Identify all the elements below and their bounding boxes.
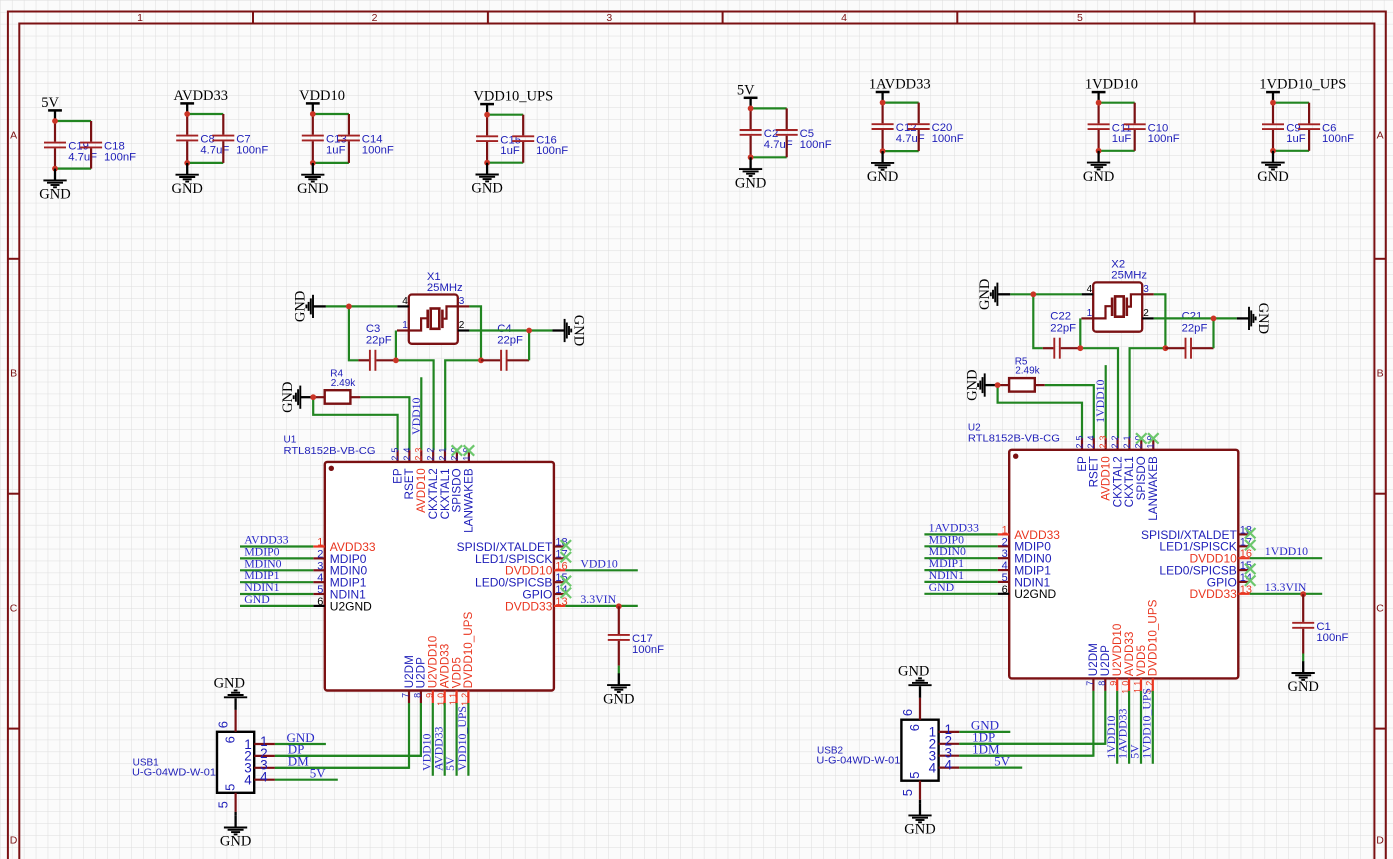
U1 pin 24 RSET: [402, 445, 416, 500]
U1 pin 3 MDIN0: [313, 560, 367, 577]
ground symbol left of X2: [977, 279, 1010, 310]
svg-text:C21: C21: [1182, 311, 1203, 323]
svg-text:25MHz: 25MHz: [427, 282, 463, 294]
column numbers: [137, 12, 1083, 24]
X1 pin 3: [458, 296, 470, 307]
resistor R5 2.49k: [998, 356, 1045, 391]
svg-text:8: 8: [412, 690, 422, 698]
USB2 pin 2: [929, 734, 960, 752]
capacitor C22 22pF: [1043, 311, 1081, 359]
ground below USB1: [220, 816, 251, 850]
svg-text:GND: GND: [1255, 303, 1271, 334]
svg-text:4: 4: [402, 296, 408, 307]
svg-text:1VDD10_UPS: 1VDD10_UPS: [1259, 77, 1346, 93]
X2 pin 1: [1081, 308, 1093, 319]
capacitor C5 100nF: [776, 108, 832, 157]
USB2 pin 3: [929, 746, 960, 764]
U2 pin 19 LANWAKEB: [1146, 432, 1160, 520]
svg-text:4: 4: [841, 12, 847, 24]
U2 pin 16 DVDD10: [1189, 548, 1252, 565]
svg-text:C4: C4: [497, 323, 511, 335]
wire+net label MDIN0: [240, 556, 313, 570]
svg-text:B: B: [1377, 368, 1384, 380]
svg-text:1VDD10_UPS: 1VDD10_UPS: [1139, 688, 1153, 759]
wire DP to U2DP: [275, 703, 421, 756]
svg-text:6: 6: [900, 709, 915, 716]
U1 pin 5 NDIN1: [313, 584, 366, 601]
ground symbol below C2: [735, 157, 766, 191]
no-connect cross pin20: [452, 445, 463, 455]
wire 1DP to U2DP: [959, 691, 1105, 744]
U1 pin 8 U2DP: [412, 657, 427, 703]
svg-text:AVDD33: AVDD33: [174, 88, 229, 104]
U1 pin 14 GPIO: [522, 584, 567, 601]
svg-text:6: 6: [216, 721, 231, 728]
svg-text:GND: GND: [280, 381, 296, 412]
USB connector USB1 U-G-04WD-W-01: [132, 732, 254, 793]
svg-text:2: 2: [372, 12, 378, 24]
wire+net label GND: [240, 592, 313, 606]
U1 pin 20 SPISDO: [449, 445, 463, 513]
wire X2 pin3 down: [1154, 294, 1166, 348]
capacitor C7 100nF: [212, 114, 268, 163]
svg-text:GND: GND: [977, 279, 993, 310]
wire+net label 1AVDD33: [1116, 691, 1130, 764]
USB1 pin 5 shield: [216, 784, 238, 816]
junction pin2 wire: [1211, 316, 1217, 322]
U1 pin 19 LANWAKEB: [461, 445, 475, 533]
svg-text:1: 1: [137, 12, 143, 24]
svg-text:24: 24: [1086, 432, 1096, 448]
wire+net label AVDD33: [240, 533, 313, 547]
wire cap to gnd: [618, 666, 620, 674]
U2 pin 7 U2DM: [1085, 643, 1100, 691]
svg-text:GND: GND: [867, 169, 898, 185]
svg-text:D: D: [10, 835, 18, 847]
capacitor C2 4.7uF: [740, 108, 793, 157]
U2 pin 20 SPISDO: [1134, 432, 1148, 500]
svg-text:3: 3: [459, 296, 465, 307]
junction dots 1VDD10: [1096, 100, 1102, 154]
wire+net label VDD10: [565, 556, 638, 570]
power port 5V: [41, 95, 62, 121]
wire+net label VDD10: [419, 703, 433, 776]
ground symbol left of X1: [293, 291, 326, 322]
capacitor C16 100nF: [512, 115, 568, 163]
wire 5V parallel loop: [55, 121, 91, 169]
U1 pin 6 U2GND: [313, 596, 372, 613]
junction dots VDD10: [310, 111, 316, 166]
wire 1VDD10_UPS parallel loop: [1273, 103, 1309, 151]
svg-text:2.49k: 2.49k: [1015, 366, 1040, 377]
junction at X1 GND: [346, 304, 352, 310]
svg-text:22: 22: [426, 445, 436, 461]
U2 pin 5 NDIN1: [998, 572, 1051, 589]
wire GND to X2 pin4: [1010, 293, 1081, 295]
U2 pin 13 DVDD33: [1189, 584, 1252, 601]
svg-text:100nF: 100nF: [632, 644, 664, 656]
svg-text:C3: C3: [366, 323, 380, 335]
svg-text:4: 4: [945, 758, 953, 773]
svg-text:GND: GND: [39, 187, 70, 203]
svg-text:GND: GND: [570, 315, 586, 346]
U1 pin 1 AVDD33: [313, 537, 376, 554]
ground symbol below C8: [171, 163, 202, 197]
svg-text:4.7uF: 4.7uF: [764, 139, 793, 151]
svg-text:100nF: 100nF: [362, 144, 394, 156]
svg-text:GND: GND: [1287, 679, 1318, 695]
wire+net label NDIN1: [924, 568, 997, 582]
svg-text:7: 7: [1085, 678, 1095, 686]
svg-text:U-G-04WD-W-01: U-G-04WD-W-01: [132, 768, 216, 779]
wire+net label 1VDD10_UPS: [1139, 688, 1153, 764]
svg-text:VDD10_UPS: VDD10_UPS: [455, 706, 469, 771]
wire GND to EP: [998, 385, 1082, 438]
svg-text:100nF: 100nF: [1148, 133, 1180, 145]
wire VDD10 parallel loop: [313, 114, 349, 163]
wire 1DM to U2DM: [959, 691, 1093, 756]
svg-text:13.3VIN: 13.3VIN: [1265, 580, 1307, 594]
ground below C17: [603, 673, 634, 707]
ground symbol below C12: [867, 151, 898, 185]
U2 pin 12 DVDD10_UPS: [1144, 599, 1159, 693]
svg-text:3: 3: [317, 560, 323, 572]
U1 pin 16 DVDD10: [505, 560, 568, 577]
svg-text:1uF: 1uF: [500, 145, 520, 157]
svg-text:1VDD10: 1VDD10: [1085, 77, 1138, 93]
svg-text:B: B: [10, 368, 17, 380]
capacitor C18 100nF: [80, 121, 136, 169]
wire+net label MDIP1: [240, 568, 313, 582]
svg-text:DVDD10_UPS: DVDD10_UPS: [1147, 599, 1160, 676]
svg-text:VDD10_UPS: VDD10_UPS: [473, 89, 553, 105]
U2 pin 24 RSET: [1086, 432, 1100, 487]
U1 pin 12 DVDD10_UPS: [460, 611, 475, 705]
resistor R4 2.49k: [313, 368, 360, 403]
wire X1 pin2 to GND: [469, 329, 552, 331]
wire cap to gnd: [1302, 654, 1304, 662]
U1 pin 7 U2DM: [401, 655, 416, 703]
wire+net label 5V: [959, 753, 1022, 768]
junction 13.3VIN: [1300, 591, 1306, 597]
svg-text:2: 2: [317, 548, 323, 560]
U2 pin 23 AVDD10: [1098, 432, 1112, 500]
USB2 pin 1: [929, 722, 960, 740]
wire+net label 5V: [1128, 691, 1142, 764]
svg-text:100nF: 100nF: [236, 144, 268, 156]
svg-text:DVDD10_UPS: DVDD10_UPS: [462, 611, 475, 688]
capacitor C9 1uF: [1262, 103, 1306, 151]
wire+net label 5V: [443, 703, 457, 776]
capacitor C10 100nF: [1124, 103, 1180, 151]
capacitor C17 100nF: [608, 606, 664, 665]
U2 pin 2 MDIP0: [998, 536, 1051, 553]
svg-text:1VDD10: 1VDD10: [1265, 544, 1308, 558]
capacitor C21 22pF: [1165, 311, 1213, 359]
svg-text:4: 4: [260, 770, 268, 785]
svg-text:2: 2: [459, 320, 465, 331]
no-connect cross pin 14: [1245, 576, 1256, 586]
U1 pin 17 LED1/SPISCK: [475, 548, 568, 565]
junction right C21: [1163, 345, 1169, 351]
svg-text:GND: GND: [904, 822, 935, 838]
svg-text:C: C: [10, 603, 18, 615]
svg-text:4.7uF: 4.7uF: [200, 144, 229, 156]
U2 pin 9 U2VDD10: [1109, 623, 1124, 691]
svg-text:1uF: 1uF: [1112, 133, 1132, 145]
svg-text:RTL8152B-VB-CG: RTL8152B-VB-CG: [968, 434, 1060, 445]
wire to CKXTAL1: [1130, 348, 1166, 438]
junction right C4: [478, 357, 484, 363]
wire X2 pin2 to GND: [1154, 317, 1237, 319]
U2 pin 1 AVDD33: [998, 524, 1061, 541]
wire+net label DP: [275, 742, 421, 757]
USB1 pin 6 shield: [216, 698, 238, 743]
wire+net label MDIP0: [924, 532, 997, 546]
wire 1VDD10 parallel loop: [1099, 103, 1135, 151]
svg-text:8: 8: [1097, 678, 1107, 686]
no-connect cross pin 18: [561, 540, 572, 550]
wire+net label GND: [924, 580, 997, 594]
power port 1AVDD33: [869, 77, 931, 103]
svg-text:21: 21: [437, 445, 447, 461]
svg-text:LANWAKEB: LANWAKEB: [1147, 456, 1160, 521]
svg-text:25: 25: [1074, 432, 1084, 448]
USB2 pin 6 shield: [900, 686, 922, 731]
svg-text:4.7uF: 4.7uF: [896, 133, 925, 145]
svg-text:1: 1: [1087, 308, 1093, 319]
svg-text:D: D: [1376, 835, 1384, 847]
svg-text:4.7uF: 4.7uF: [68, 151, 97, 163]
USB2 pin 4: [929, 758, 960, 776]
svg-text:VDD10: VDD10: [580, 556, 617, 570]
U1 pin 22 CKXTAL2: [426, 445, 440, 520]
net label 1VDD10 vertical: [1093, 379, 1107, 422]
U2 pin 11 VDD5: [1133, 645, 1148, 694]
svg-text:LANWAKEB: LANWAKEB: [463, 468, 476, 533]
svg-text:A: A: [10, 130, 17, 142]
wire+net label 1VDD10: [1104, 691, 1118, 764]
svg-text:22pF: 22pF: [366, 334, 392, 346]
wire+net label 3.3VIN: [565, 592, 638, 606]
capacitor C15 1uF: [476, 115, 521, 163]
svg-text:1uF: 1uF: [1286, 133, 1306, 145]
junction dots 1AVDD33: [880, 100, 886, 154]
svg-text:23: 23: [1098, 432, 1108, 448]
U1 pin 23 AVDD10: [414, 445, 428, 513]
svg-text:25: 25: [390, 445, 400, 461]
junction at R4 GND: [310, 394, 316, 400]
U2 pin 4 MDIP1: [998, 560, 1051, 577]
wire to CKXTAL1: [445, 360, 481, 450]
svg-text:9: 9: [424, 690, 434, 698]
capacitor C8 4.7uF: [176, 114, 229, 163]
svg-text:100nF: 100nF: [800, 139, 832, 151]
U1 pin 25 EP: [390, 445, 404, 484]
svg-text:5: 5: [317, 584, 323, 596]
svg-text:5V: 5V: [41, 95, 59, 111]
svg-text:U2GND: U2GND: [1014, 587, 1056, 601]
U1 pin 18 SPISDI/XTALDET: [457, 537, 568, 554]
svg-text:7: 7: [401, 690, 411, 698]
svg-text:U-G-04WD-W-01: U-G-04WD-W-01: [816, 756, 900, 767]
X1 pin 1: [397, 320, 409, 331]
svg-text:22pF: 22pF: [1050, 322, 1076, 334]
svg-text:1uF: 1uF: [326, 144, 346, 156]
capacitor C19 4.7uF: [44, 121, 97, 169]
svg-text:3: 3: [606, 12, 612, 24]
junction dots VDD10_UPS: [484, 112, 490, 166]
ground symbol below C19: [39, 169, 70, 203]
no-connect cross pin 17: [1245, 540, 1256, 550]
wire AVDD10 net: [420, 377, 422, 450]
U2 pin 8 U2DP: [1097, 645, 1112, 691]
svg-text:3: 3: [1002, 548, 1008, 560]
svg-text:25MHz: 25MHz: [1111, 270, 1147, 282]
ground symbol below C9: [1257, 151, 1288, 185]
U2 pin 22 CKXTAL2: [1110, 432, 1124, 507]
svg-text:GND: GND: [297, 181, 328, 197]
svg-text:GND: GND: [1083, 169, 1114, 185]
U2 pin 15 LED0/SPICSB: [1159, 560, 1252, 577]
svg-text:4: 4: [929, 760, 937, 775]
svg-text:5: 5: [907, 772, 922, 779]
svg-text:1: 1: [1002, 524, 1008, 536]
junction at X2 GND: [1030, 291, 1036, 297]
junction dots 5V: [52, 118, 58, 171]
svg-text:6: 6: [222, 736, 237, 743]
wire+net label 13.3VIN: [1250, 580, 1323, 594]
svg-text:GND: GND: [735, 175, 766, 191]
power port 1VDD10: [1085, 77, 1138, 103]
net label VDD10 vertical: [409, 397, 423, 434]
ground above USB2: [898, 664, 932, 686]
svg-text:100nF: 100nF: [536, 145, 568, 157]
svg-text:4: 4: [244, 773, 252, 788]
svg-text:C: C: [1376, 603, 1384, 615]
capacitor C20 100nF: [908, 103, 964, 152]
wire GND to X1 pin4: [326, 305, 397, 307]
svg-text:5: 5: [1077, 12, 1083, 24]
svg-text:9: 9: [1109, 678, 1119, 686]
svg-text:1: 1: [317, 537, 323, 549]
power port VDD10: [299, 88, 345, 114]
wire+net label VDD10_UPS: [455, 703, 469, 776]
svg-text:U1: U1: [284, 435, 297, 446]
U2 pin 18 SPISDI/XTALDET: [1141, 524, 1252, 541]
svg-text:GND: GND: [1257, 169, 1288, 185]
U2 pin 14 GPIO: [1207, 572, 1252, 589]
capacitor C14 100nF: [338, 114, 394, 163]
power port 5V: [737, 82, 758, 108]
wire+net label 1VDD10: [1250, 544, 1323, 558]
power port 1VDD10_UPS: [1259, 77, 1346, 103]
wire+net label MDIN0: [924, 544, 997, 558]
wire+net label AVDD33: [431, 703, 445, 776]
svg-text:5: 5: [222, 784, 237, 791]
svg-text:RTL8152B-VB-CG: RTL8152B-VB-CG: [284, 446, 376, 457]
svg-text:100nF: 100nF: [932, 133, 964, 145]
ground above USB1: [214, 676, 248, 698]
X2 pin 3: [1142, 284, 1154, 295]
svg-text:GND: GND: [603, 691, 634, 707]
wire+net label GND: [275, 730, 326, 745]
wire AVDD10 net: [1105, 365, 1107, 438]
wire+net label NDIN1: [240, 580, 313, 594]
junction pin2 wire: [526, 328, 532, 334]
wire X1 pin3 down: [469, 306, 481, 360]
svg-text:GND: GND: [220, 834, 251, 850]
svg-text:4: 4: [1002, 560, 1008, 572]
svg-text:22: 22: [1110, 432, 1120, 448]
junction left of C22: [1077, 345, 1083, 351]
USB connector USB2 U-G-04WD-W-01: [816, 720, 938, 781]
no-connect cross pin20: [1136, 433, 1147, 443]
svg-text:2.49k: 2.49k: [331, 378, 356, 389]
svg-text:GND: GND: [898, 664, 929, 680]
ground symbol below C13: [297, 163, 328, 197]
capacitor C4 22pF: [481, 323, 529, 371]
wire 5V parallel loop: [751, 108, 787, 157]
U2 pin 6 U2GND: [998, 584, 1057, 601]
svg-text:5: 5: [216, 801, 231, 808]
capacitor C6 100nF: [1298, 103, 1354, 151]
svg-text:GND: GND: [293, 291, 309, 322]
U1 pin 10 AVDD33: [436, 644, 451, 706]
capacitor C11 1uF: [1088, 103, 1132, 151]
ground symbol right of X1: [552, 315, 586, 346]
USB1 pin 3: [244, 758, 275, 776]
USB2 pin 5 shield: [900, 772, 922, 804]
ground symbol left of R5: [964, 369, 997, 400]
svg-text:U2: U2: [968, 422, 981, 433]
USB1 pin 1: [244, 734, 275, 752]
svg-text:GND: GND: [214, 676, 245, 692]
capacitor C13 1uF: [302, 114, 347, 163]
wire C21 up to pin2 net: [1212, 318, 1214, 348]
svg-text:6: 6: [907, 724, 922, 731]
no-connect cross pin19: [464, 445, 475, 455]
wire+net label DM: [275, 754, 409, 769]
USB1 pin 4: [244, 770, 275, 788]
wire DM to U2DM: [275, 703, 409, 768]
wire+net label 1DP: [959, 730, 1105, 745]
svg-text:2: 2: [1143, 308, 1149, 319]
wire AVDD33 parallel loop: [187, 114, 223, 163]
no-connect cross pin 18: [1245, 528, 1256, 538]
U1 pin 15 LED0/SPICSB: [475, 572, 568, 589]
svg-text:DVDD33: DVDD33: [505, 599, 553, 613]
svg-text:2: 2: [1002, 536, 1008, 548]
wire+net label 1DM: [959, 742, 1093, 757]
U1 pin 2 MDIP0: [313, 548, 367, 565]
svg-text:3.3VIN: 3.3VIN: [580, 592, 616, 606]
USB1 pin 2: [244, 746, 275, 764]
junction dots 1VDD10_UPS: [1270, 100, 1276, 154]
svg-text:4: 4: [317, 572, 323, 584]
no-connect cross pin 14: [561, 588, 572, 598]
svg-text:11: 11: [448, 690, 458, 705]
ground symbol below C11: [1083, 151, 1114, 185]
no-connect cross pin 17: [561, 552, 572, 562]
crystal X2 25MHz: [1093, 259, 1147, 332]
X1 pin 4: [397, 296, 409, 307]
wire XIN down to C left: [1033, 294, 1043, 348]
U2 pin 10 AVDD33: [1121, 632, 1136, 694]
capacitor C12 4.7uF: [872, 103, 925, 152]
junction at R5 GND: [995, 382, 1001, 388]
wire R4 to RSET: [360, 397, 409, 450]
